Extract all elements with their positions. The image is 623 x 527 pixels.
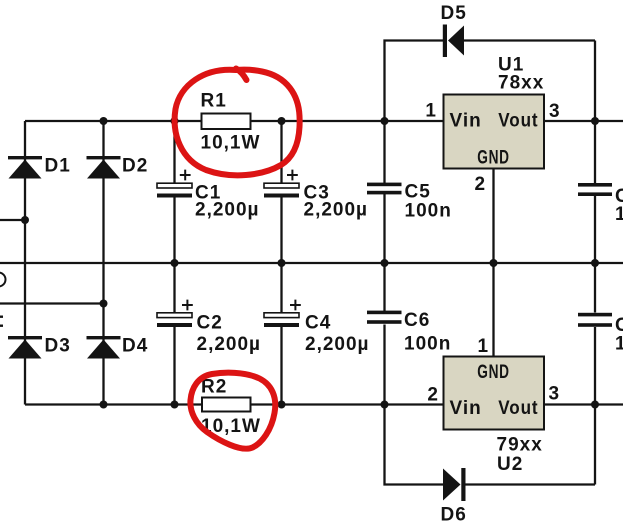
node bottom rail x384.5 — [381, 401, 389, 409]
wire C3 branch upper — [280, 121, 282, 184]
diode D3 — [8, 336, 42, 359]
svg-text:100n: 100n — [404, 334, 451, 355]
node mid rail x493.5 — [490, 259, 498, 267]
svg-text:C2: C2 — [197, 313, 223, 334]
wire D5 bypass left leg — [385, 41, 444, 122]
svg-text:GND: GND — [477, 146, 510, 168]
wire C4 branch lower — [280, 327, 282, 405]
svg-text:Vin: Vin — [450, 111, 482, 132]
wire C6 branch lower — [383, 325, 385, 405]
node mid rail x281.5 — [278, 259, 286, 267]
svg-text:3: 3 — [549, 101, 561, 122]
wire C1 branch upper — [173, 121, 175, 184]
diode D2 — [87, 156, 121, 179]
connector stub left edge partial circle — [0, 273, 6, 287]
svg-text:1: 1 — [425, 101, 437, 122]
wire top rail right section — [544, 120, 623, 122]
node mid rail x384.5 — [381, 259, 389, 267]
svg-text:100n: 100n — [615, 334, 623, 355]
svg-text:100n: 100n — [405, 201, 452, 222]
svg-text:D3: D3 — [45, 336, 71, 357]
wire C5 branch upper — [383, 121, 385, 183]
svg-text:D2: D2 — [122, 156, 148, 177]
wire bottom rail left section — [25, 403, 444, 405]
svg-text:100n: 100n — [615, 204, 623, 225]
svg-text:78xx: 78xx — [498, 73, 544, 94]
capacitor C6 — [367, 311, 402, 324]
wire GND link U1 pin2 to U2 pin1 — [492, 169, 494, 357]
svg-text:Vin: Vin — [450, 398, 482, 419]
svg-text:2,200µ: 2,200µ — [195, 200, 260, 221]
svg-text:2: 2 — [427, 385, 439, 406]
svg-text:D1: D1 — [45, 156, 71, 177]
node bottom rail x595 — [591, 401, 599, 409]
svg-text:C6: C6 — [404, 310, 430, 331]
wire C3 C4 branch middle — [280, 197, 282, 313]
wire top rail left section — [25, 120, 444, 122]
node bottom rail x281.5 — [278, 401, 286, 409]
wire bottom rail right section — [544, 403, 623, 405]
node top rail x281.5 — [278, 117, 286, 125]
svg-text:R1: R1 — [201, 91, 227, 112]
svg-text:D4: D4 — [122, 336, 148, 357]
node bottom rail x103.5 — [100, 401, 108, 409]
resistor R1 — [202, 114, 251, 130]
svg-text:2,200µ: 2,200µ — [304, 200, 369, 221]
wire C5 C6 branch middle — [383, 194, 385, 311]
op-amp U2 regulator 79xx box — [444, 357, 545, 430]
node top rail x103.5 — [100, 117, 108, 125]
op-amp U1 regulator 78xx box — [444, 95, 545, 169]
node mid rail x174.5 — [171, 259, 179, 267]
wire D6 bypass left leg — [385, 405, 444, 485]
capacitor C8 partial right edge — [578, 313, 612, 327]
svg-text:1: 1 — [478, 336, 490, 357]
svg-text:D5: D5 — [441, 3, 467, 24]
wire D6 bypass right leg — [466, 483, 596, 485]
node AC stub lower x103.5 y303.5 — [100, 300, 108, 308]
capacitor C2 — [157, 300, 193, 327]
wire AC input stub lower — [0, 302, 104, 304]
wire right vertical upper — [594, 41, 596, 184]
capacitor C5 — [367, 183, 402, 195]
wire C1 C2 branch middle — [173, 197, 175, 313]
capacitor C3 — [264, 170, 299, 198]
node AC stub upper x25 y220 — [21, 216, 29, 224]
svg-text:GND: GND — [477, 361, 510, 383]
svg-text:U2: U2 — [497, 454, 523, 475]
svg-text:10,1W: 10,1W — [201, 133, 261, 154]
wire D5 bypass right leg — [464, 39, 595, 41]
svg-text:3: 3 — [549, 384, 561, 405]
svg-text:2,200µ: 2,200µ — [305, 334, 370, 355]
left edge partial text artifact — [0, 316, 3, 327]
wire C2 branch lower — [173, 327, 175, 405]
diode D4 — [87, 336, 121, 359]
svg-text:C5: C5 — [405, 182, 431, 203]
wire right vertical C7 to mid — [594, 196, 596, 313]
svg-text:C4: C4 — [305, 313, 331, 334]
svg-text:79xx: 79xx — [497, 435, 543, 456]
capacitor C4 — [264, 300, 301, 327]
capacitor C7 partial right edge — [578, 183, 612, 196]
wire AC input stub upper — [0, 219, 25, 221]
node bottom rail x174.5 — [171, 401, 179, 409]
wire left vertical D1 D3 branch — [24, 121, 26, 405]
node top rail x595 — [591, 117, 599, 125]
svg-text:Vout: Vout — [498, 397, 538, 418]
diode D1 — [8, 156, 42, 179]
node top rail x174.5 — [171, 117, 179, 125]
red annotation circle around R2 — [190, 373, 275, 449]
resistor R2 — [202, 398, 251, 412]
svg-text:D6: D6 — [441, 505, 467, 526]
wire mid rail — [0, 262, 623, 264]
svg-text:2: 2 — [475, 174, 487, 195]
diode D6 — [443, 468, 466, 501]
wire D2 D4 vertical branch — [102, 121, 104, 405]
svg-text:Vout: Vout — [498, 110, 538, 131]
node top rail x384.5 — [381, 117, 389, 125]
wire right vertical C8 to bottom — [594, 327, 596, 485]
red annotation circle around R1 — [175, 69, 300, 176]
capacitor C1 — [157, 170, 192, 198]
diode D5 — [443, 25, 464, 58]
svg-text:2,200µ: 2,200µ — [197, 334, 262, 355]
node mid rail x595 — [591, 259, 599, 267]
